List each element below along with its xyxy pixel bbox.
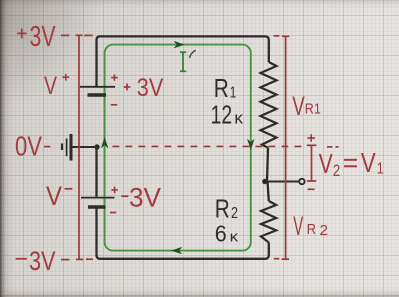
resistor R1 zigzag bbox=[261, 62, 277, 148]
red dashes at -3V level bbox=[61, 258, 93, 260]
wire between V- battery and 0V junction bbox=[95, 146, 97, 197]
current arrow bottom (left-pointing) bbox=[171, 247, 182, 254]
plus sign above V2 bracket bbox=[307, 134, 315, 142]
junction dot at divider node bbox=[262, 179, 267, 184]
tap wire to output terminal bbox=[265, 181, 299, 183]
current arrow left side (up-pointing) bbox=[101, 137, 108, 148]
wire from R1 to mid junction bbox=[267, 148, 268, 182]
battery V+ short plate (negative) bbox=[88, 93, 107, 96]
current arrow right side (down-pointing) bbox=[247, 139, 254, 150]
battery V- short plate (negative) bbox=[88, 205, 106, 208]
red rail line left (-3V to +3V) bbox=[76, 35, 84, 259]
tick mark beside I bbox=[190, 50, 196, 58]
0V tap wire bbox=[73, 146, 97, 148]
battery V- long plate (positive) bbox=[81, 197, 115, 199]
battery V+ polarity marks bbox=[111, 74, 118, 104]
current label I (green) bbox=[180, 52, 186, 71]
minus superscript of V- bbox=[65, 188, 73, 190]
0V dashed reference line bbox=[44, 145, 339, 148]
minus of battery label -3V bbox=[121, 195, 128, 197]
junction dot at 0V node bbox=[94, 144, 99, 149]
plus of battery label +3V bbox=[124, 84, 131, 91]
output terminal (open circle) bbox=[299, 179, 304, 184]
0V reference symbol bars bbox=[62, 134, 71, 161]
red rail line right (VR1/VR2 bracket) bbox=[274, 36, 290, 260]
paper grain overlay bbox=[0, 0, 1, 1]
resistor R2 zigzag bbox=[261, 201, 276, 243]
minus sign below output terminal bbox=[308, 188, 315, 190]
battery V+ long plate (positive) bbox=[80, 86, 115, 88]
current arrow top (right-pointing) bbox=[174, 41, 185, 48]
plus superscript of V+ bbox=[62, 74, 69, 81]
red dashes at +3V level bbox=[61, 34, 93, 36]
wire: R2 to bottom-right corner, bottom side, up to V- battery bbox=[97, 208, 269, 259]
green current loop wire (rounded rectangle) bbox=[105, 45, 251, 251]
minus of rail label -3V (bottom-left) bbox=[16, 258, 27, 260]
battery V- polarity marks bbox=[110, 187, 118, 213]
plus of rail label +3V (top-left) bbox=[17, 29, 26, 39]
wire from junction down to R2 bbox=[268, 182, 269, 202]
V2 measurement bracket bbox=[307, 145, 317, 181]
wire: V+ battery up to top-left corner and top side bbox=[97, 36, 269, 86]
